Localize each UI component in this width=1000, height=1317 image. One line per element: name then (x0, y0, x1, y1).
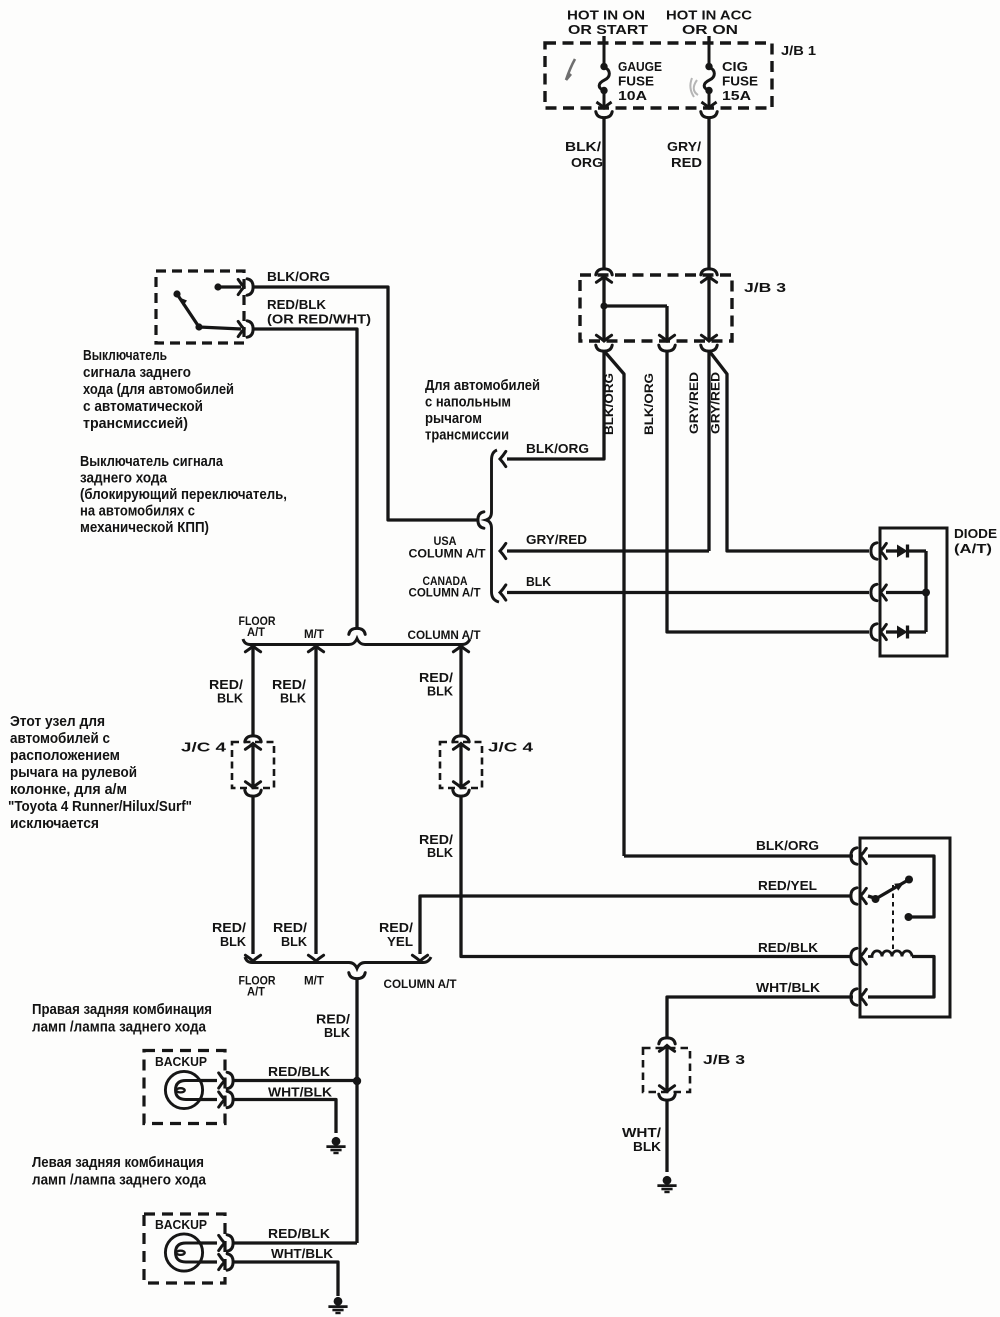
connector diode pin 2 (871, 584, 886, 600)
wire RED/BLK J/C 4 left to lower bus (251, 797, 254, 954)
arrow into upper bus M/T (308, 646, 323, 652)
svg-text:RED/: RED/ (273, 920, 307, 935)
connector out of J/B 3 pin 2 (659, 335, 675, 351)
connector relay pin 1 BLK/ORG (851, 848, 866, 864)
svg-text:USA: USA (434, 535, 458, 548)
connector left lamp pin 2 (200, 1254, 233, 1270)
svg-text:OR START: OR START (568, 22, 648, 37)
svg-text:BLK/ORG: BLK/ORG (756, 838, 819, 853)
svg-text:BLK/: BLK/ (565, 139, 601, 154)
relay internal contact wire (868, 856, 934, 917)
junction node at right backup lamp (353, 1077, 361, 1085)
junction block J/B 1 dashed box (545, 43, 772, 108)
connector diode pin 1 (871, 543, 886, 559)
svg-text:ламп /лампа заднего хода: ламп /лампа заднего хода (32, 1173, 207, 1189)
svg-text:Для автомобилей: Для автомобилей (425, 378, 540, 394)
label RED/BLK lower bus m/t (273, 920, 307, 949)
svg-text:Выключатель: Выключатель (83, 348, 167, 364)
svg-text:RED/: RED/ (212, 920, 246, 935)
right backup lamp bulb (165, 1071, 202, 1108)
connector into J/C 4 left (245, 736, 261, 749)
svg-text:10A: 10A (618, 88, 648, 103)
label CIG FUSE 15A (722, 59, 758, 103)
svg-text:COLUMN A/T: COLUMN A/T (409, 587, 481, 600)
left backup lamp dashed box (144, 1214, 225, 1283)
svg-text:M/T: M/T (304, 628, 324, 641)
arrow into brace GRY/RED (500, 543, 506, 558)
label CANADA COLUMN A/T (409, 575, 481, 600)
female end above bus cusp (349, 628, 365, 634)
svg-text:сигнала заднего: сигнала заднего (83, 365, 191, 381)
fuse CIG FUSE 15A (701, 43, 716, 108)
wire RED/BLK right lamp (235, 1079, 358, 1082)
ground G3 (657, 1176, 676, 1192)
svg-text:A/T: A/T (247, 626, 265, 639)
connector below GAUGE fuse (596, 112, 612, 118)
wire RED/BLK column to J/C 4 right (459, 646, 462, 735)
svg-text:Левая задняя комбинация: Левая задняя комбинация (32, 1155, 204, 1171)
label GRY/RED (667, 139, 702, 170)
wire WHT/BLK right lamp to ground (235, 1100, 337, 1134)
internal wire of diode pack (924, 551, 927, 632)
connector out of J/B 3 lower (659, 1086, 675, 1100)
wire WHT/BLK left lamp to ground (235, 1262, 339, 1296)
svg-text:J/C 4: J/C 4 (181, 740, 227, 755)
wire inside J/B 3 right (707, 276, 710, 341)
svg-text:трансмиссии: трансмиссии (425, 428, 509, 444)
wire GRY/RED diagonal branch to diode (710, 352, 869, 551)
svg-text:WHT/BLK: WHT/BLK (756, 980, 820, 995)
faint smudge near CIG fuse (690, 78, 698, 97)
svg-text:BLK: BLK (324, 1025, 350, 1040)
wire BLK/ORG switch to floor-shift connector (255, 287, 479, 520)
label GAUGE FUSE 10A (618, 59, 662, 103)
connector diode pin 3 (871, 624, 886, 640)
connector into J/B 3 right (701, 269, 717, 282)
svg-text:рычагом: рычагом (425, 411, 482, 427)
wire RED/BLK m/t between buses (314, 646, 317, 954)
junction connector J/C 4 right dashed box (440, 742, 482, 788)
svg-text:ламп /лампа заднего хода: ламп /лампа заднего хода (32, 1020, 207, 1036)
arrow into upper bus FLOOR A/T (245, 646, 260, 652)
wire RED/BLK left lamp (235, 1241, 358, 1244)
wire branch down inside J/B 3 (665, 306, 668, 341)
wire GRY/RED fuse to J/B 3 (707, 118, 710, 269)
relay box (860, 838, 950, 1017)
svg-text:"Toyota 4 Runner/Hilux/Surf": "Toyota 4 Runner/Hilux/Surf" (8, 799, 192, 815)
relay fixed contact node (905, 913, 913, 921)
wire BLK/ORG fuse to J/B 3 (602, 118, 605, 269)
wire RED/YEL column to relay (420, 896, 852, 954)
right backup lamp dashed box (144, 1051, 225, 1124)
svg-text:рычага на рулевой: рычага на рулевой (10, 765, 137, 781)
svg-text:FUSE: FUSE (618, 74, 654, 89)
svg-text:BLK: BLK (526, 574, 551, 589)
svg-text:GRY/RED: GRY/RED (687, 372, 701, 434)
wire BLK/ORG long vertical to relay (624, 854, 853, 857)
svg-text:BLK/ORG: BLK/ORG (642, 373, 656, 435)
svg-text:OR ON: OR ON (682, 22, 738, 37)
svg-text:Этот узел для: Этот узел для (10, 714, 105, 730)
svg-text:GAUGE: GAUGE (618, 59, 662, 74)
connector into J/B 3 lower (659, 1038, 675, 1051)
svg-text:HOT IN ACC: HOT IN ACC (666, 8, 753, 23)
wire inside J/B 3 left (602, 276, 605, 341)
female end at floor-shift connector (478, 512, 484, 528)
wire WHT/BLK relay to J/B 3 (667, 997, 853, 1037)
relay internal wire from pin 2 (868, 896, 876, 899)
bus bracket FLOOR A/T / M/T / COLUMN A/T lower (245, 957, 431, 969)
svg-text:RED/BLK: RED/BLK (267, 297, 326, 312)
svg-text:J/B 3: J/B 3 (703, 1052, 745, 1067)
svg-text:WHT/BLK: WHT/BLK (271, 1246, 333, 1261)
svg-text:COLUMN A/T: COLUMN A/T (384, 978, 457, 991)
svg-text:GRY/: GRY/ (667, 139, 701, 154)
wire BLK/ORG down to floor-shift connector (507, 352, 604, 460)
stray pen mark in J/B 1 (566, 59, 575, 80)
svg-text:на автомобилях с: на автомобилях с (80, 504, 195, 520)
arrow into lower bus M/T (308, 955, 323, 961)
arrow into brace BLK/ORG (500, 451, 506, 466)
svg-text:J/C 4: J/C 4 (488, 740, 534, 755)
svg-text:Выключатель сигнала: Выключатель сигнала (80, 454, 224, 470)
svg-text:ORG: ORG (571, 155, 603, 170)
note: this node for cars with column shift excluded on Toyota 4Runner/Hilux/Surf (8, 714, 192, 832)
diode assembly box (880, 528, 947, 656)
connector right lamp pin 1 (200, 1072, 233, 1088)
label BLK/ORG (565, 139, 603, 170)
svg-text:BLK: BLK (633, 1139, 661, 1154)
svg-text:колонке, для а/м: колонке, для а/м (10, 782, 127, 798)
ground G1 (326, 1137, 345, 1153)
svg-text:BLK: BLK (280, 691, 306, 706)
svg-text:Правая задняя комбинация: Правая задняя комбинация (32, 1002, 212, 1018)
connector into J/C 4 right (453, 736, 469, 749)
svg-text:исключается: исключается (10, 816, 99, 832)
svg-text:BLK: BLK (281, 934, 307, 949)
label WHT/BLK to ground (622, 1125, 661, 1154)
svg-text:автомобилей с: автомобилей с (10, 731, 110, 747)
svg-text:BACKUP: BACKUP (155, 1218, 207, 1232)
svg-text:BACKUP: BACKUP (155, 1055, 207, 1069)
diode D1 (886, 545, 926, 558)
svg-text:RED: RED (671, 155, 702, 170)
connector out of J/B 3 pin 3 (701, 335, 717, 351)
label DIODE (A/T) (954, 526, 997, 556)
svg-text:BLK: BLK (220, 934, 246, 949)
label RED/YEL lower bus column (379, 920, 413, 949)
arrow into lower bus COLUMN A/T (412, 955, 427, 961)
svg-text:с автоматической: с автоматической (83, 399, 203, 415)
svg-text:трансмиссией): трансмиссией) (83, 416, 188, 432)
svg-text:HOT IN ON: HOT IN ON (567, 8, 645, 23)
fuse GAUGE FUSE 10A (596, 43, 611, 108)
junction node inside J/B 3 (600, 302, 607, 309)
female end below lower bus cusp (349, 973, 365, 979)
svg-text:BLK/ORG: BLK/ORG (267, 269, 330, 284)
bus bracket FLOOR A/T / M/T / COLUMN A/T upper (243, 639, 470, 645)
connector below CIG fuse (701, 112, 717, 118)
reverse light switch A/T dashed box (156, 271, 244, 343)
switch blade (173, 290, 241, 330)
note: reverse light switch for automatic transmission (83, 348, 234, 432)
svg-text:RED/YEL: RED/YEL (758, 878, 817, 893)
wire RED/BLK floor to J/C 4 (251, 646, 254, 735)
junction connector J/C 4 left dashed box (232, 742, 274, 788)
wire through J/B 3 lower (665, 1045, 668, 1091)
svg-text:RED/BLK: RED/BLK (268, 1226, 330, 1241)
wire stub from HOT IN ON label (602, 36, 605, 44)
svg-text:расположением: расположением (10, 748, 120, 764)
svg-text:с напольным: с напольным (425, 395, 511, 411)
wire BLK/ORG diagonal from J/B 3 pin 1 (605, 352, 624, 856)
wire branch inside J/B 3 (604, 304, 667, 307)
label USA COLUMN A/T (409, 535, 486, 561)
wire BLK canada column to diode (507, 591, 869, 594)
wire through J/C 4 left (251, 743, 254, 787)
connector relay pin 3 RED/BLK (851, 948, 866, 964)
svg-text:RED/BLK: RED/BLK (758, 940, 818, 955)
note: right rear combination lamp / backup lamp (32, 1002, 212, 1036)
connector relay pin 4 WHT/BLK (851, 989, 866, 1005)
svg-text:J/B 1: J/B 1 (781, 43, 816, 58)
arrow into upper bus COLUMN A/T (453, 646, 468, 652)
connector into J/B 3 left (596, 269, 612, 282)
connector relay pin 2 RED/YEL (851, 888, 866, 904)
svg-text:(A/T): (A/T) (954, 541, 992, 556)
svg-text:RED/BLK: RED/BLK (268, 1064, 330, 1079)
svg-text:BLK: BLK (217, 691, 243, 706)
connector out of J/B 3 pin 1 (596, 335, 612, 351)
diode D2 (886, 626, 926, 639)
wire RED/BLK switch to floor A/T bus (255, 329, 358, 629)
wire diode pin 2 to node (886, 591, 926, 594)
label RED/BLK to backup lamps (316, 1012, 350, 1041)
svg-text:BLK: BLK (427, 684, 453, 699)
svg-text:RED/: RED/ (379, 920, 413, 935)
junction block J/B 3 dashed box (580, 275, 732, 341)
svg-text:WHT/: WHT/ (622, 1125, 661, 1140)
note: reverse light switch blocking for manual transmission (80, 454, 287, 536)
arrow into brace BLK (500, 585, 506, 600)
wire stub from HOT IN ACC label (707, 36, 710, 44)
left backup lamp bulb (165, 1234, 202, 1271)
svg-text:15A: 15A (722, 88, 752, 103)
wire GRY/RED from J/B 3 pin 3 straight down (707, 352, 710, 552)
svg-text:A/T: A/T (247, 986, 265, 999)
connector left lamp pin 1 (200, 1235, 233, 1251)
svg-text:CIG: CIG (722, 59, 748, 74)
junction block J/B 3 lower dashed box (643, 1048, 690, 1092)
svg-text:хода (для автомобилей: хода (для автомобилей (83, 382, 234, 398)
note: left rear combination lamp / backup lamp (32, 1155, 207, 1189)
connector switch pin 2 (238, 321, 253, 337)
connector switch pin 1 (238, 279, 253, 295)
label FLOOR A/T upper (239, 615, 277, 639)
svg-text:COLUMN A/T: COLUMN A/T (408, 629, 481, 642)
svg-text:BLK/ORG: BLK/ORG (526, 441, 589, 456)
connector right lamp pin 2 (200, 1091, 233, 1107)
svg-text:BLK: BLK (427, 845, 453, 860)
relay coil (868, 951, 912, 957)
junction node in diode pack (922, 589, 930, 597)
connector out of J/C 4 right (453, 782, 469, 796)
note: for cars with floor shift lever (425, 378, 540, 444)
connector out of J/C 4 left (245, 782, 261, 796)
label RED/BLK column wire (419, 670, 453, 699)
svg-text:FUSE: FUSE (722, 74, 758, 89)
label RED/BLK above relay feed (419, 832, 453, 860)
svg-text:J/B 3: J/B 3 (744, 280, 786, 295)
label RED/BLK m/t wire (272, 677, 306, 706)
wire BLK/ORG from J/B 3 pin 2 to diode (667, 352, 869, 633)
relay coil to ground pin wire (868, 957, 934, 998)
wire through J/C 4 right (459, 743, 462, 787)
label RED/BLK lower bus floor (212, 920, 246, 949)
svg-text:COLUMN A/T: COLUMN A/T (409, 548, 486, 561)
svg-text:M/T: M/T (304, 975, 324, 988)
svg-text:DIODE: DIODE (954, 526, 997, 541)
svg-text:(блокирующий переключатель,: (блокирующий переключатель, (80, 487, 287, 503)
wire GRY/RED usa column to J/B 3 wire (507, 549, 709, 552)
ground G2 (328, 1297, 347, 1313)
svg-text:механической КПП): механической КПП) (80, 520, 209, 536)
label FLOOR A/T lower (239, 975, 277, 999)
svg-text:GRY/RED: GRY/RED (709, 372, 723, 434)
wire WHT/BLK to ground (665, 1101, 668, 1172)
wire RED/BLK J/C 4 right down to relay (461, 797, 852, 957)
label RED/BLK floor wire (209, 677, 243, 706)
svg-text:заднего хода: заднего хода (80, 471, 168, 487)
switch contact upper (214, 283, 241, 290)
floor-shift connector brace (486, 450, 499, 602)
relay actuating link dashed (892, 885, 894, 952)
svg-text:GRY/RED: GRY/RED (526, 532, 587, 547)
arrow into lower bus FLOOR A/T (245, 955, 260, 961)
svg-text:WHT/BLK: WHT/BLK (268, 1085, 332, 1100)
wire RED/BLK lower bus to lamps (355, 980, 358, 1243)
relay switch blade (872, 876, 914, 904)
svg-text:YEL: YEL (387, 934, 413, 949)
svg-text:(OR RED/WHT): (OR RED/WHT) (267, 313, 371, 327)
